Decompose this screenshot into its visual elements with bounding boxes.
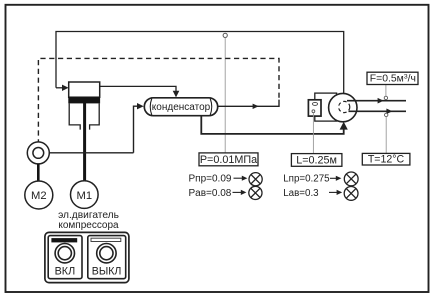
indicator lamp Lав [344,187,358,201]
arrow up into fan unit [340,122,348,130]
gauge box L [291,154,342,167]
svg-text:конденсатор: конденсатор [152,102,211,113]
svg-text:P=0.01МПа: P=0.01МПа [200,154,257,166]
coupling double circle [27,142,49,164]
svg-text:M2: M2 [31,190,47,202]
condenser end caps [150,99,212,116]
wire: compressor outlet to condenser top [100,86,176,91]
gauge box P [199,153,258,166]
indicator lamp Pпр [249,173,262,186]
svg-text:M1: M1 [77,190,93,202]
wire: suction pipe horizontal [49,152,133,154]
indicator lamp Pав [249,186,262,199]
arrow Lав [329,191,338,193]
fan unit housing [315,93,337,121]
sensor wire to P gauge [224,38,226,153]
svg-text:Lпр=0.275: Lпр=0.275 [283,173,330,184]
fan inner dashed circle [339,101,350,112]
fan circle [329,93,357,121]
sensor wire to F gauge [385,85,387,97]
compressor piston (black band) [68,97,100,103]
shaft M2 [37,164,40,181]
sensor tap circle F [384,96,387,99]
svg-text:Lав=0.3: Lав=0.3 [283,188,319,199]
svg-text:ВКЛ: ВКЛ [55,266,76,278]
flow arrow on condenser outlet [253,104,259,109]
wire: upper air pipe [347,100,406,102]
compressor cylinder walls [69,103,99,129]
arrow Pпр [234,177,243,179]
wire: discharge line (top, compressor inlet to fan unit) [56,32,344,94]
arrow into condenser left [137,103,144,109]
motor M2 [25,181,53,209]
sensor wire to L gauge [312,113,314,154]
motor M1 [71,181,99,209]
sensor node P on discharge line [223,33,227,37]
gauge box T [362,153,410,165]
wire: lower air pipe [349,110,407,112]
arrow into condenser top [173,91,180,98]
arrow Lпр [330,177,337,179]
arrow into compressor [62,85,69,91]
sensor tap circle L [312,110,315,113]
svg-text:Pпр=0.09: Pпр=0.09 [189,173,232,184]
sensor wire to T gauge [385,117,387,154]
flow arrow lower pipe [386,109,392,115]
flow arrow upper pipe [378,98,384,104]
wire: suction riser into condenser left [134,106,138,153]
compressor cylinder head [69,82,100,97]
svg-text:F=0.5м3/ч: F=0.5м3/ч [370,74,416,85]
wire: liquid line (condenser bottom to fan unit) [201,116,343,134]
condenser body [144,98,217,116]
fan motor box ellipse [312,102,317,105]
control impulse dashed line [38,58,279,141]
compressor piston rod [83,102,86,182]
svg-text:ВЫКЛ: ВЫКЛ [92,266,122,278]
svg-text:T=12°C: T=12°C [368,154,405,166]
button ВКЛ [48,236,82,279]
arrow Pав [233,191,242,193]
wire: condenser outlet right [218,100,279,107]
indicator lamp Lпр [344,172,358,186]
svg-text:L=0.25м: L=0.25м [296,154,337,166]
gauge box F [367,72,418,84]
control panel [45,232,129,282]
sensor tap circle T [385,113,388,116]
button ВЫКЛ [88,236,126,279]
svg-text:компрессора: компрессора [58,220,119,231]
fan motor box [308,100,321,116]
svg-text:Pав=0.08: Pав=0.08 [189,188,232,199]
